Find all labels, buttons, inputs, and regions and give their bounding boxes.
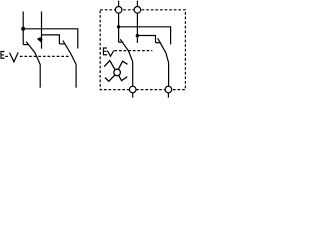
fan/impeller hub circle (114, 69, 121, 76)
semiconductor chevron V on control line (10, 52, 19, 61)
switch S1 actuation arrowhead on line B (37, 37, 43, 43)
switch S1' moving blade (120, 39, 133, 61)
wire: S1 bottom terminal (39, 65, 41, 88)
node: junction dot on line A (21, 27, 25, 31)
terminal stub above circle T2 (136, 1, 138, 7)
wire: down to bottom terminal T3 (132, 62, 134, 87)
node: junction dot on T1 line (117, 25, 120, 28)
wire: branch from T1 line to switch S2' right feed (119, 27, 171, 45)
dashed enclosure box (100, 10, 185, 90)
wire: branch from A to switch S2 right feed (23, 29, 78, 49)
terminal circle T3 (bottom left) (129, 86, 136, 93)
fan blade top-left (104, 61, 115, 71)
control link dashed line (5, 55, 69, 57)
semiconductor chevron V on control line (module) (107, 51, 114, 57)
wire: phase line from T2 (136, 13, 138, 43)
switch S1' fixed-contact bracket stub (119, 41, 124, 43)
terminal circle T2 (top right) (134, 7, 141, 14)
wire: phase line B (top vertical) (41, 12, 43, 49)
terminal stub below T3 (132, 93, 134, 98)
label E (gate/control) (0, 51, 4, 59)
switch S1 fixed-contact bracket (23, 44, 29, 46)
wire: S2 bottom terminal (75, 64, 77, 87)
wire: down to bottom terminal T4 (168, 63, 170, 86)
control link dashed line (module) (114, 50, 152, 52)
terminal circle T1 (top left) (115, 7, 122, 14)
wire: phase line A (top vertical) (22, 12, 24, 45)
label E (gate/control, inside module) (103, 48, 107, 56)
fan blade top-right (118, 61, 128, 70)
terminal circle T4 (bottom right) (165, 86, 172, 93)
wire: branch from T2 line to switch S2' fixed contact (137, 36, 155, 43)
switch S2 fixed-contact bracket stub (59, 43, 65, 45)
fan blade bottom-left (105, 74, 116, 81)
switch S1 moving blade (26, 42, 40, 65)
wire: phase line from T1 (118, 13, 120, 42)
terminal stub above circle T1 (118, 1, 120, 7)
switch S2 moving blade (63, 41, 76, 65)
switch S2' fixed-contact bracket stub (156, 42, 161, 44)
fan blade bottom-right (118, 75, 127, 81)
terminal stub below T4 (167, 93, 169, 98)
switch S2' moving blade (158, 38, 169, 62)
wire: branch from B to switch S2 fixed contact (42, 35, 60, 44)
node: junction dot on T2 line (136, 34, 139, 37)
